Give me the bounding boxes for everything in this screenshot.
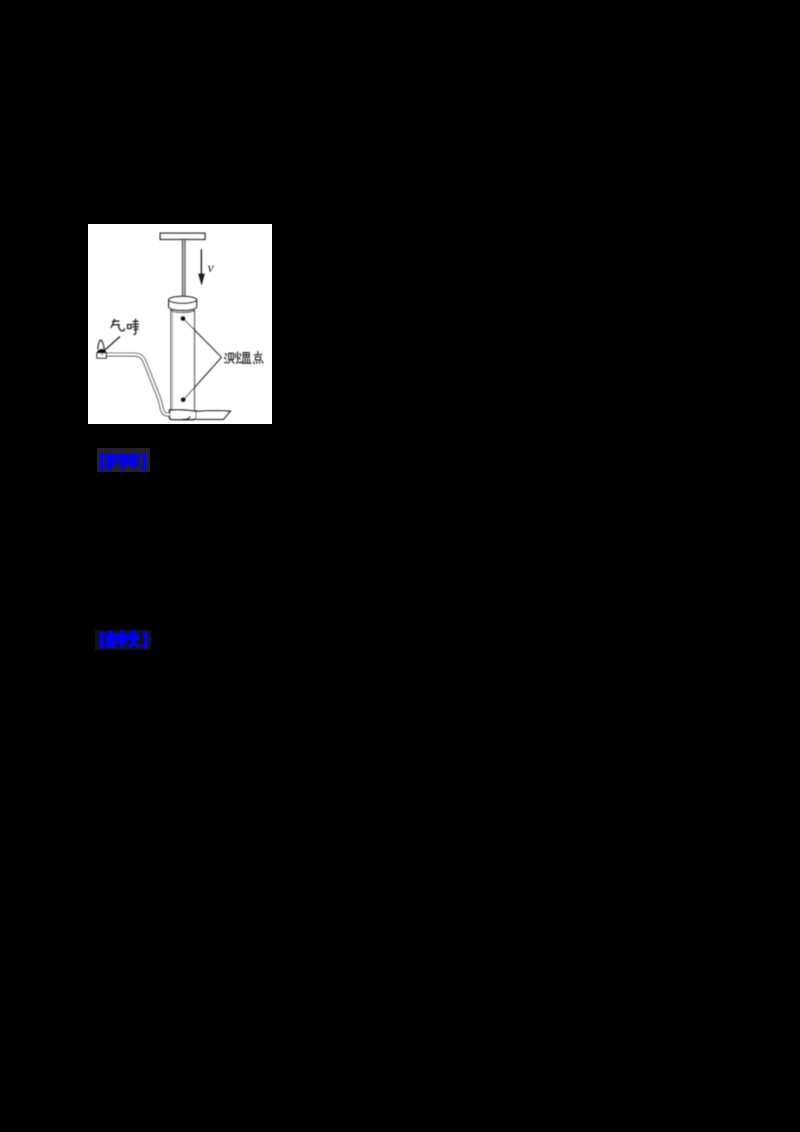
white figure panel: bicycle pump illustration [88, 224, 272, 424]
piston rod [182, 239, 185, 300]
leader line from lower dot [185, 357, 222, 398]
stray blue mark right of tag 2 [149, 637, 152, 642]
label cewendian (measuring points) [224, 351, 263, 363]
nozzle collar (dark) [97, 349, 107, 354]
label qizui (air nozzle) [111, 319, 139, 334]
svg-text:v: v [208, 261, 215, 276]
velocity arrow [200, 249, 202, 275]
base flange [170, 410, 197, 420]
nozzle body [97, 353, 106, 358]
label pointer to nozzle [103, 337, 120, 352]
air hose [106, 355, 170, 415]
measuring point lower dot [181, 397, 186, 402]
pump T-handle [160, 233, 205, 239]
air nozzle cone [98, 340, 104, 349]
pump barrel [171, 310, 194, 411]
foot plate [197, 411, 231, 420]
blue tag 1 [97, 448, 150, 472]
blue tag 2 [95, 630, 151, 650]
leader line from upper dot [185, 320, 222, 357]
measuring point upper dot [180, 316, 185, 321]
piston cap (cylinder top) [169, 300, 197, 311]
